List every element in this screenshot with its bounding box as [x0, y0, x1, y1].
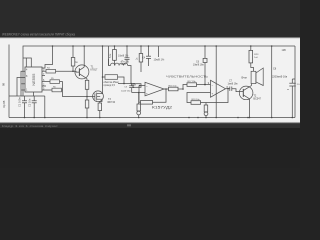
resistor R5	[50, 80, 60, 84]
transistor T1 KT817	[75, 65, 89, 79]
svg-text:1%: 1%	[297, 84, 300, 86]
svg-text:10мФ 16в: 10мФ 16в	[193, 64, 204, 67]
svg-text:2200мкФ 16в: 2200мкФ 16в	[272, 75, 288, 78]
svg-text:Кр 9В: Кр 9В	[2, 100, 6, 107]
bottom status bar	[0, 124, 300, 128]
timer IC NE555	[25, 67, 42, 92]
svg-text:кч: кч	[287, 89, 289, 91]
wire right frame	[294, 46, 296, 118]
wire T1 collector to bus	[83, 46, 85, 67]
svg-text:Вчм: Вчм	[242, 76, 247, 80]
wire IC pin6 to left rail	[17, 78, 25, 97]
wire battery node row	[9, 95, 45, 97]
svg-text:1мкФ 16в: 1мкФ 16в	[228, 82, 239, 85]
svg-text:провод 0,5: провод 0,5	[104, 85, 116, 87]
op-amp U2 K157UD2 second half	[211, 80, 226, 97]
wire T2 collector to speaker	[251, 84, 253, 86]
wire IC Vcc from bus	[40, 46, 53, 68]
svg-text:R17 33к: R17 33к	[188, 81, 196, 83]
resistor R19 feedback	[187, 89, 228, 105]
resistor R22 speaker feed	[249, 46, 254, 71]
junction dots middle	[72, 70, 229, 97]
svg-text:ВС547: ВС547	[253, 98, 261, 101]
trimmer R20	[204, 103, 208, 118]
wire IC ground drop	[44, 96, 46, 118]
wire coil right lead	[128, 66, 131, 84]
wire input row	[118, 84, 135, 86]
svg-text:2мВт: 2мВт	[121, 63, 127, 66]
wire IC pin stub B	[22, 89, 26, 91]
capacitor C7	[226, 87, 241, 92]
resistor R4	[46, 69, 56, 73]
speaker BF1	[251, 68, 263, 86]
wire IC pin1 down	[33, 92, 35, 96]
wire long rail through op-amp	[215, 46, 217, 118]
svg-text:R16 10к: R16 10к	[169, 85, 177, 87]
svg-text:10мФ 1%: 10мФ 1%	[154, 58, 165, 61]
resistor R14 feedback	[139, 86, 166, 105]
wire R13 to inverting input	[141, 85, 145, 87]
svg-text:С1 100н: С1 100н	[18, 97, 22, 107]
wire short riser	[158, 46, 160, 57]
wire bottom ground bus	[9, 117, 295, 119]
resistor R16 output	[164, 87, 183, 91]
junction dots bottom bus	[24, 117, 293, 119]
svg-text:обмотка 25мм: обмотка 25мм	[104, 82, 120, 84]
wire pin3 stub	[42, 70, 46, 72]
resistor R12 source	[98, 99, 102, 117]
svg-text:NE555: NE555	[31, 73, 36, 86]
resistor R10 emitter chain	[85, 79, 89, 100]
wire IC pin stub A	[22, 83, 26, 85]
wire left battery rail	[8, 45, 10, 118]
wire pin6 stub	[42, 81, 50, 83]
wire IC pin2 to left rail	[21, 71, 25, 96]
svg-text:−: −	[212, 83, 214, 87]
svg-text:Кадр 1 из 1 схема пират: Кадр 1 из 1 схема пират	[2, 124, 59, 128]
resistor R3 base pull-up	[71, 46, 75, 71]
svg-text:IRF740: IRF740	[107, 101, 116, 104]
pin numbers NE555	[26, 69, 45, 92]
svg-text:С2 10н: С2 10н	[28, 98, 32, 107]
capacitor C6 from bus	[203, 46, 207, 85]
svg-text:К157УД2: К157УД2	[152, 105, 172, 109]
wire R4 to base row	[56, 70, 80, 73]
wire R5 to gate column	[60, 82, 88, 97]
white schematic background	[0, 38, 300, 122]
svg-text:12В: 12В	[282, 49, 287, 52]
capacitor C4	[146, 46, 151, 66]
resistor R coil series	[105, 75, 118, 80]
top dark band	[0, 0, 300, 38]
svg-text:WEBMONEY схема металлоискател: WEBMONEY схема металлоискателя ПИРАТ сбо…	[2, 32, 75, 36]
resistor R9	[139, 46, 143, 72]
svg-text:−: −	[146, 84, 148, 88]
wire top supply bus	[23, 46, 295, 96]
resistor R7	[113, 46, 117, 66]
capacitor C1	[22, 96, 27, 118]
resistor R13	[133, 84, 141, 88]
wire pin2 stub	[42, 85, 46, 87]
svg-text:9В: 9В	[2, 83, 6, 86]
resistor R6	[52, 88, 62, 92]
wire pin7 stub	[42, 75, 45, 77]
trimmer R15	[137, 93, 141, 118]
wire T3 gate	[87, 96, 95, 98]
svg-text:10мФ 1%: 10мФ 1%	[118, 55, 129, 58]
wire T2 emitter to ground	[249, 99, 251, 118]
svg-text:1мкФ 16в: 1мкФ 16в	[121, 90, 131, 93]
svg-text:+: +	[212, 92, 214, 96]
inductor L1 search coil zigzag	[111, 63, 128, 65]
wire T2 base lead	[240, 91, 243, 93]
transistor T2 BC547	[239, 85, 253, 99]
svg-text:+: +	[146, 91, 148, 95]
bottom dark band	[0, 128, 300, 168]
wire riser to coil	[108, 46, 110, 66]
junction dots top bus	[52, 45, 273, 85]
wire R6 join	[62, 89, 63, 91]
wire IC reset to rail	[23, 58, 31, 67]
resistor R11 lower	[85, 100, 89, 118]
op-amp U1 K157UD2 first half	[145, 82, 164, 96]
wire pin5 stub	[42, 89, 52, 91]
transistor T3 IRF740 mosfet	[93, 91, 104, 102]
wire T3 drain to coil node	[100, 46, 102, 94]
svg-text:ЧУВСТВИТЕЛЬНОСТЬ: ЧУВСТВИТЕЛЬНОСТЬ	[166, 74, 208, 78]
resistor R17 interstage	[183, 83, 211, 89]
capacitor C2	[32, 96, 37, 118]
wire coil left lead	[109, 59, 111, 66]
wire non-inverting input	[132, 92, 145, 94]
wire right vertical rail	[271, 46, 273, 118]
svg-text:КТ817: КТ817	[91, 69, 99, 72]
capacitor C3 damping	[125, 46, 130, 63]
capacitor C3 coupling	[129, 84, 134, 93]
svg-text:R19 10к: R19 10к	[192, 99, 200, 101]
